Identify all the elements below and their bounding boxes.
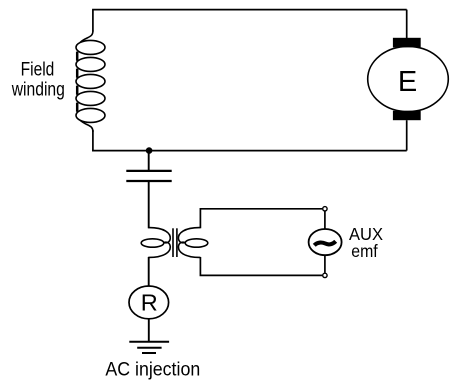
transformer secondary winding [178,228,207,258]
source R circle [129,286,169,319]
svg-text:E: E [398,66,417,98]
brush bottom [393,111,421,120]
wire secondary loop bottom [200,257,322,275]
label Field winding [11,59,65,101]
capacitor [126,171,171,181]
machine E circle [368,46,449,111]
wire aux source top lead [324,212,326,230]
wire primary to R [148,257,150,286]
transformer primary winding [141,228,170,258]
wire bottom horizontal [92,150,407,152]
wire junction to capacitor [148,151,150,171]
inductor field winding [76,31,105,133]
wire secondary loop top [200,209,322,229]
AC source tilde [314,241,335,245]
transformer core [173,228,177,257]
terminal top [323,207,327,211]
wire right vertical top [406,10,408,39]
wire left vertical bottom [92,130,94,151]
wire capacitor to transformer primary [148,182,150,229]
junction node [146,147,153,154]
terminal bottom [323,273,327,277]
svg-text:winding: winding [11,78,65,100]
wire right vertical bottom [406,120,408,150]
svg-text:AC injection: AC injection [105,358,200,380]
ground [129,342,169,353]
wire aux source bottom lead [324,256,326,273]
wire top horizontal [92,9,407,11]
svg-text:R: R [141,289,158,315]
label AUX emf [349,224,383,261]
svg-text:emf: emf [351,241,377,261]
svg-text:Field: Field [21,59,55,81]
wire R to ground [148,320,150,343]
wire left vertical top [92,10,94,32]
brush top [393,38,421,48]
AC source AUX emf circle [309,229,342,255]
